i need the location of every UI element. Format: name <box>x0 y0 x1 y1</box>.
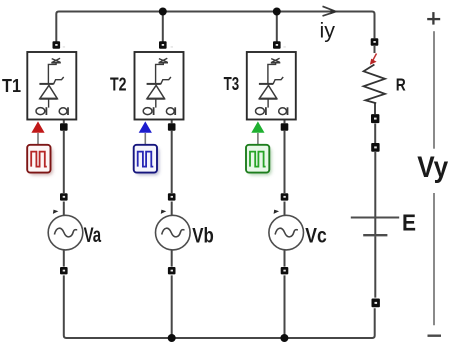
svg-text:R: R <box>396 74 406 94</box>
svg-text:Vy: Vy <box>417 151 449 184</box>
svg-text:T2: T2 <box>110 74 127 95</box>
svg-text:Va: Va <box>84 223 102 247</box>
svg-text:T1: T1 <box>2 75 21 96</box>
svg-text:iy: iy <box>320 20 336 43</box>
svg-text:Vc: Vc <box>305 223 327 247</box>
svg-text:T3: T3 <box>224 73 240 94</box>
svg-text:Vb: Vb <box>192 223 214 247</box>
svg-text:E: E <box>402 210 416 236</box>
